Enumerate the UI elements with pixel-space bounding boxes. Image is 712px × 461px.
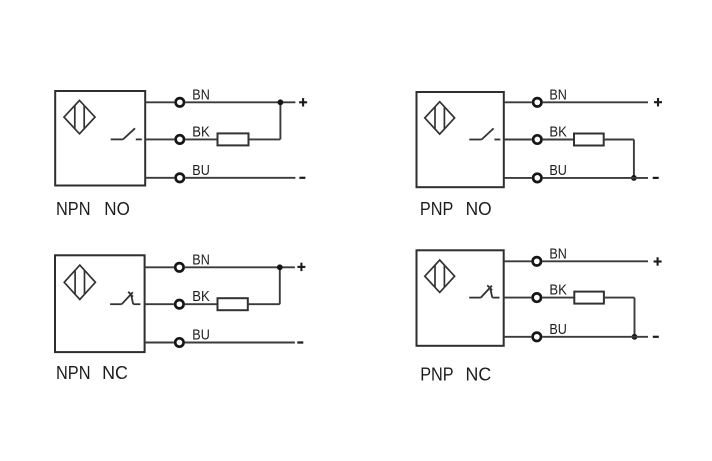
wire BK stub from box PNP-NC [504, 297, 532, 299]
junction node on BN NPN-NC [277, 264, 283, 270]
terminal ring BN NPN-NO [176, 98, 184, 106]
load resistor RL NPN-NC [218, 298, 248, 310]
+ supply terminal PNP-NC [654, 257, 662, 265]
wire vertical load to BU node PNP-NO [633, 140, 635, 178]
- supply terminal PNP-NO [653, 177, 659, 179]
- supply terminal NPN-NC [297, 341, 303, 343]
wire BK to load PNP-NO [543, 139, 574, 141]
sensor box NPN-NO [55, 91, 145, 186]
- supply terminal PNP-NC [653, 336, 659, 338]
wire BK stub from box PNP-NO [504, 139, 532, 141]
wire BK to load NPN-NC [185, 303, 218, 305]
wire BU stub from box NPN-NC [145, 342, 174, 344]
junction node on BU PNP-NO [631, 175, 637, 181]
wire resistor to corner NPN-NC [248, 303, 280, 305]
wire vertical load to BN node NPN-NC [279, 267, 281, 304]
sensor box PNP-NO [417, 92, 504, 187]
wire BN to + supply NPN-NC [185, 266, 295, 268]
terminal ring BU NPN-NO [176, 174, 184, 182]
wire BN to + supply PNP-NC [542, 260, 648, 262]
NO switch contact PNP-NO [469, 128, 500, 139]
terminal ring BK NPN-NC [175, 300, 183, 308]
wire vertical load to BN node NPN-NO [279, 102, 281, 139]
- supply terminal NPN-NO [299, 177, 305, 179]
+ supply terminal NPN-NC [297, 263, 305, 271]
terminal ring BU NPN-NC [175, 338, 183, 346]
load resistor RL NPN-NO [218, 133, 249, 145]
+ supply terminal PNP-NO [654, 98, 662, 106]
wire BN stub from box PNP-NC [504, 260, 532, 262]
proximity sensor diamond symbol NPN-NO [64, 100, 95, 133]
proximity sensor diamond symbol NPN-NC [64, 265, 95, 299]
terminal ring BK PNP-NO [533, 135, 541, 143]
sensor box PNP-NC [417, 250, 504, 345]
sensor box NPN-NC [55, 255, 145, 352]
terminal ring BK PNP-NC [533, 293, 541, 301]
svg-text:BK: BK [192, 123, 210, 140]
wire BN stub from box PNP-NO [504, 101, 532, 103]
terminal ring BK NPN-NO [176, 135, 184, 143]
svg-text:BU: BU [192, 327, 210, 344]
terminal ring BN PNP-NO [533, 98, 541, 106]
svg-text:NC: NC [466, 364, 492, 385]
wire vertical load to BU node PNP-NC [634, 298, 636, 337]
wire BU stub from box PNP-NO [504, 177, 532, 179]
svg-text:NO: NO [104, 198, 130, 219]
wire BN to + supply PNP-NO [543, 101, 648, 103]
svg-text:BU: BU [549, 321, 567, 338]
svg-text:BK: BK [549, 282, 567, 299]
svg-text:BN: BN [192, 251, 210, 268]
junction node on BN NPN-NO [278, 99, 284, 105]
NC switch contact NPN-NC [110, 292, 140, 304]
terminal ring BU PNP-NC [533, 333, 541, 341]
NC switch contact PNP-NC [469, 285, 499, 297]
svg-text:BK: BK [549, 124, 567, 141]
wire BU to - supply PNP-NO [543, 177, 648, 179]
svg-text:NPN: NPN [56, 362, 91, 383]
wire BU stub from box NPN-NO [145, 177, 174, 179]
svg-text:NPN: NPN [56, 198, 91, 219]
svg-text:BN: BN [192, 86, 210, 103]
proximity sensor diamond symbol PNP-NO [425, 102, 455, 134]
terminal ring BU PNP-NO [533, 174, 541, 182]
wire BK stub from box NPN-NO [145, 138, 174, 140]
svg-text:PNP: PNP [420, 364, 453, 385]
terminal ring BN PNP-NC [533, 257, 541, 265]
wire BK stub from box NPN-NC [145, 303, 174, 305]
wire BN stub from box NPN-NO [145, 101, 174, 103]
load resistor RL PNP-NC [574, 292, 604, 304]
terminal ring BN NPN-NC [175, 263, 183, 271]
load resistor RL PNP-NO [574, 134, 604, 146]
+ supply terminal NPN-NO [299, 98, 307, 106]
wire BN to + supply NPN-NO [185, 101, 295, 103]
wire resistor to corner NPN-NO [249, 138, 281, 140]
wire BK to load PNP-NC [542, 297, 574, 299]
wire BU to - supply PNP-NC [542, 336, 648, 338]
proximity sensor diamond symbol PNP-NC [425, 260, 455, 292]
NO switch contact NPN-NO [111, 128, 142, 139]
wire BN stub from box NPN-NC [145, 266, 174, 268]
svg-text:BU: BU [192, 162, 210, 179]
wire resistor to corner PNP-NO [604, 139, 634, 141]
junction node on BU PNP-NC [632, 334, 638, 340]
wire BU stub from box PNP-NC [504, 336, 532, 338]
svg-text:BU: BU [549, 162, 567, 179]
svg-text:BK: BK [192, 288, 210, 305]
wire resistor to corner PNP-NC [604, 297, 635, 299]
svg-text:BN: BN [549, 86, 567, 103]
wire BK to load NPN-NO [185, 138, 217, 140]
wire BU to - supply NPN-NO [185, 177, 295, 179]
svg-text:BN: BN [549, 245, 567, 262]
svg-text:PNP: PNP [420, 198, 453, 219]
svg-text:NC: NC [102, 362, 128, 383]
svg-text:NO: NO [466, 198, 492, 219]
wire BU to - supply NPN-NC [185, 342, 295, 344]
